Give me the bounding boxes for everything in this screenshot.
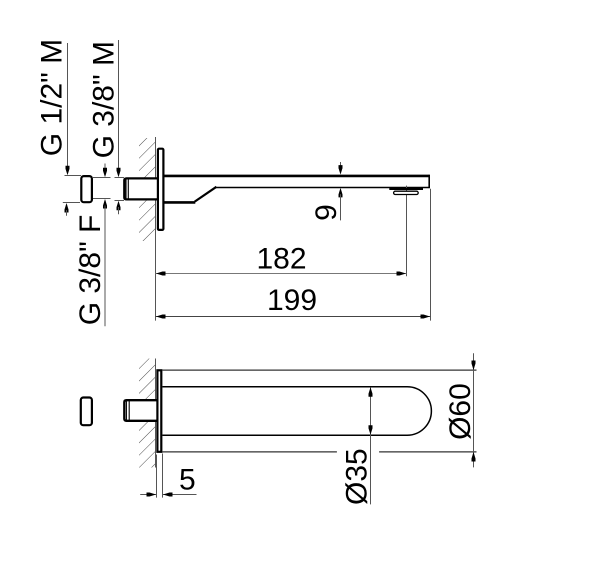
- svg-text:G 3/8" M: G 3/8" M: [87, 41, 120, 158]
- svg-text:182: 182: [256, 242, 306, 275]
- svg-text:9: 9: [310, 204, 343, 221]
- svg-text:G 1/2" M: G 1/2" M: [35, 39, 68, 156]
- svg-text:199: 199: [267, 284, 317, 317]
- svg-text:5: 5: [179, 464, 196, 497]
- svg-text:Ø60: Ø60: [444, 383, 477, 440]
- svg-text:Ø35: Ø35: [340, 448, 373, 505]
- svg-text:G 3/8" F: G 3/8" F: [74, 215, 107, 326]
